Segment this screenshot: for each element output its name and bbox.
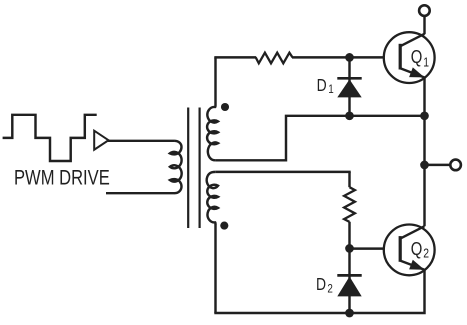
wire: bottom secondary bottom lead to bottom rail bbox=[214, 224, 216, 313]
output terminal mid bbox=[450, 160, 461, 171]
wire: top secondary bottom lead, step, to emitter bus bbox=[216, 116, 425, 161]
PWM waveform bbox=[3, 115, 97, 161]
transformer core bar right bbox=[199, 108, 201, 229]
buffer triangle bbox=[94, 131, 108, 150]
wire: mid output stub bbox=[425, 164, 451, 166]
svg-text:D: D bbox=[317, 77, 327, 96]
resistor R1 bbox=[256, 53, 293, 64]
phase dot top secondary bbox=[221, 103, 229, 111]
transformer core bar left bbox=[187, 108, 189, 229]
diode D2 cathode bar bbox=[337, 274, 361, 277]
wire: Q2 emitter to bottom rail and bottom rail to bottom winding bbox=[214, 271, 424, 314]
label D2 bbox=[316, 276, 333, 296]
wire: emitter bus Q1 to Q2 collector bbox=[423, 78, 425, 227]
transistor Q1 label bbox=[411, 46, 429, 69]
diode D1 triangle bbox=[337, 79, 361, 97]
svg-text:2: 2 bbox=[327, 282, 332, 295]
junction node: D2 bottom rail bbox=[345, 309, 354, 318]
wire: resistor R2 through diode D2 to bottom rail bbox=[348, 222, 350, 313]
svg-text:Q: Q bbox=[411, 46, 423, 67]
wire: Q2 base wire bbox=[350, 247, 401, 249]
diode D1 cathode bar bbox=[337, 77, 361, 80]
transistor Q1 bbox=[384, 32, 435, 83]
transformer primary winding T1 bbox=[170, 141, 182, 193]
junction node: emitter bus / step wire bbox=[420, 111, 429, 120]
phase dot bottom secondary bbox=[220, 222, 228, 230]
label D1 bbox=[317, 77, 334, 97]
wire: top secondary top lead to resistor R1 bbox=[214, 56, 256, 58]
wire: primary winding bottom lead (open end) bbox=[106, 192, 175, 194]
wire: buffer output to primary winding bbox=[108, 140, 174, 142]
wire: resistor R1 to Q1 base bbox=[292, 56, 400, 58]
svg-text:2: 2 bbox=[423, 246, 429, 260]
junction node: R2 / D2 / Q2 base bbox=[345, 244, 354, 253]
output terminal top bbox=[419, 5, 430, 16]
transformer secondary top winding T1 bbox=[207, 57, 218, 160]
transistor Q2 bbox=[384, 225, 435, 276]
svg-text:1: 1 bbox=[328, 83, 333, 96]
svg-text:D: D bbox=[316, 276, 326, 295]
resistor R2 bbox=[344, 187, 355, 222]
wire: bottom secondary top lead toward resistor R2 bbox=[216, 171, 351, 173]
diode D2 triangle bbox=[337, 277, 361, 297]
svg-text:Q: Q bbox=[411, 238, 423, 259]
wire: collector bus from top terminal to Q1 bbox=[423, 16, 425, 34]
transformer secondary bottom winding T1 bbox=[207, 172, 218, 224]
wire: diode D1 branch vertical bbox=[348, 57, 350, 115]
svg-text:PWM DRIVE: PWM DRIVE bbox=[14, 167, 110, 190]
svg-text:1: 1 bbox=[423, 55, 429, 69]
junction node: D1 bottom bbox=[345, 111, 354, 120]
transistor Q2 label bbox=[411, 238, 429, 260]
wire: bottom secondary lead corner down to resistor R2 bbox=[348, 172, 350, 187]
junction node: mid output bbox=[420, 161, 429, 170]
junction node: R1 / D1 top bbox=[345, 53, 354, 62]
